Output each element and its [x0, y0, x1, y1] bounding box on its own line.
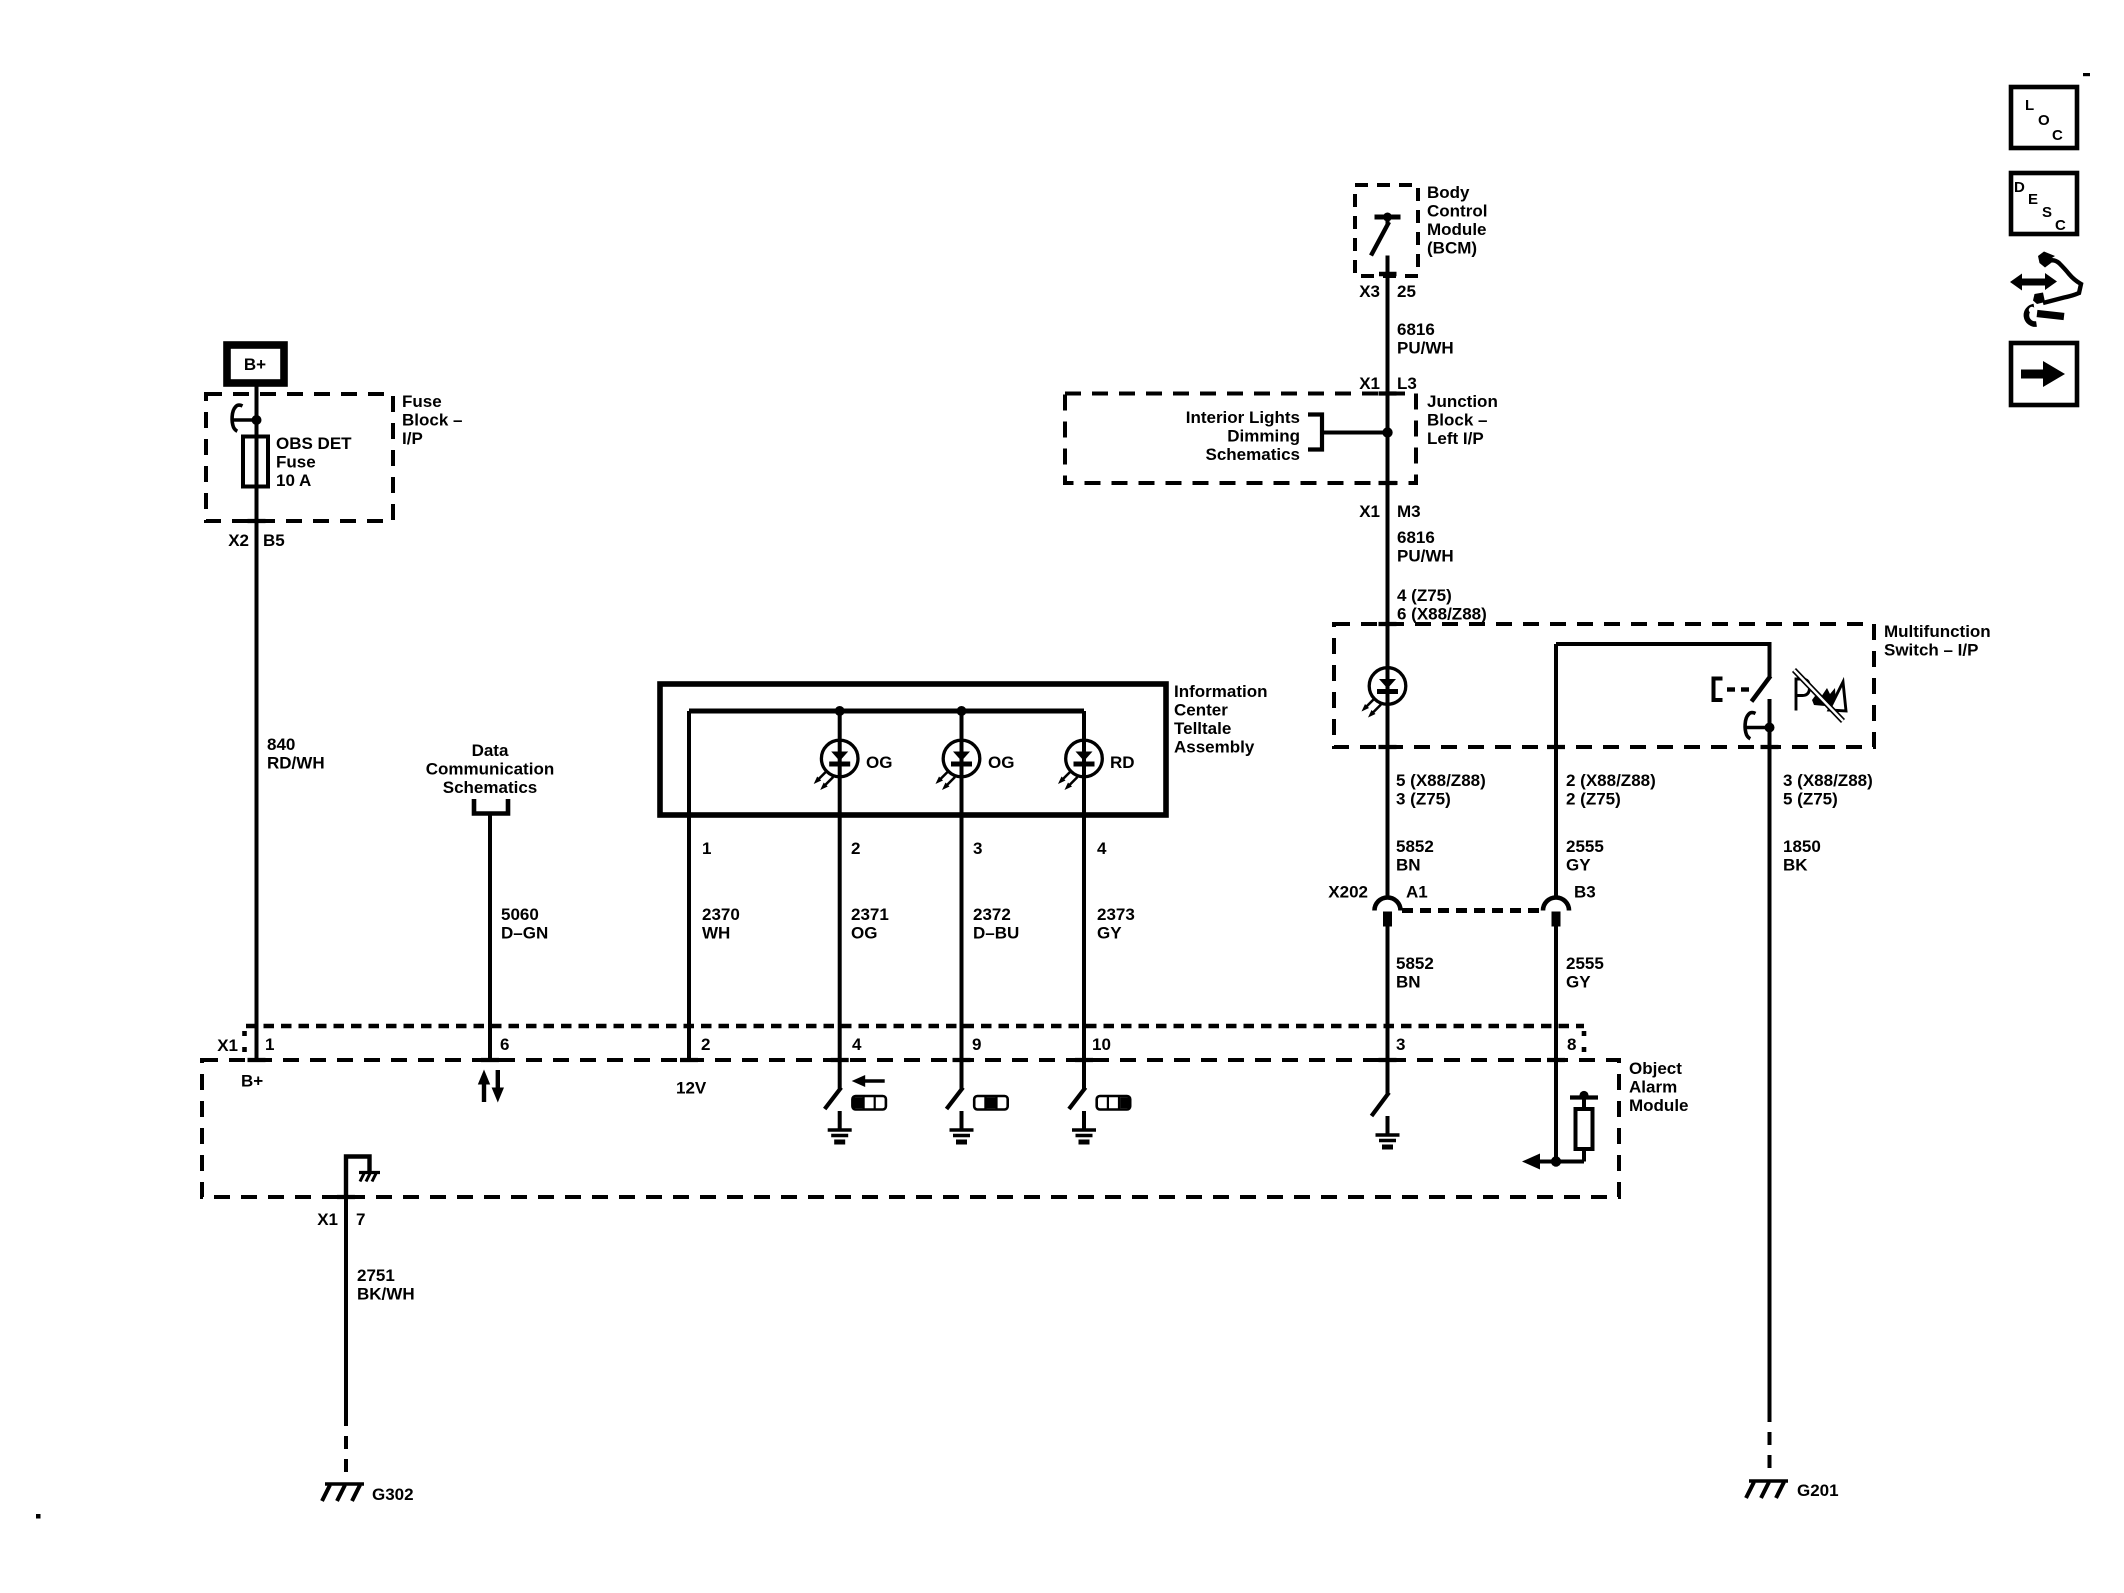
- svg-text:X1: X1: [1359, 374, 1380, 393]
- svg-text:Junction: Junction: [1427, 392, 1498, 411]
- wire label 2372 D-BU: [973, 905, 1019, 943]
- svg-text:I/P: I/P: [402, 429, 423, 448]
- svg-text:BN: BN: [1396, 973, 1421, 992]
- svg-text:(BCM): (BCM): [1427, 239, 1477, 258]
- ground G302: [322, 1484, 364, 1501]
- wire 5852 to module pin 3: [1386, 926, 1390, 1060]
- svg-text:B+: B+: [244, 355, 266, 374]
- svg-text:PU/WH: PU/WH: [1397, 547, 1454, 566]
- svg-text:G201: G201: [1797, 1481, 1839, 1500]
- svg-text:S: S: [2042, 204, 2052, 221]
- svg-text:2 (X88/Z88): 2 (X88/Z88): [1566, 771, 1656, 790]
- svg-text:GY: GY: [1566, 973, 1591, 992]
- svg-text:3: 3: [1396, 1035, 1405, 1054]
- fuse block label: [402, 392, 462, 448]
- svg-text:5852: 5852: [1396, 954, 1434, 973]
- svg-text:Schematics: Schematics: [443, 778, 538, 797]
- wire label 2751 BK/WH: [357, 1266, 415, 1304]
- internal supply bus: [689, 709, 1084, 714]
- svg-text:25: 25: [1397, 282, 1416, 301]
- tiny mark bottom left: [36, 1514, 41, 1519]
- data communication schematics label: [426, 741, 554, 797]
- svg-text:12V: 12V: [676, 1079, 707, 1098]
- wire label 2370 WH: [702, 905, 740, 943]
- wire label 2371 OG: [851, 905, 889, 943]
- svg-text:BK: BK: [1783, 856, 1808, 875]
- telltale LED 3 (RD) with wire to pin 10: [1082, 711, 1086, 1059]
- svg-text:9: 9: [972, 1035, 981, 1054]
- wire 840 from B+ through fuse to module pin 1: [255, 384, 259, 1059]
- fuse OBS DET 10A: [243, 437, 268, 487]
- svg-text:OG: OG: [851, 924, 877, 943]
- pin label 4 (Z75) 6 (X88/Z88): [1397, 586, 1487, 624]
- svg-text:Switch – I/P: Switch – I/P: [1884, 641, 1978, 660]
- svg-text:Center: Center: [1174, 701, 1228, 720]
- wire 6816 from BCM to junction block and on to MFS LED: [1386, 256, 1390, 898]
- svg-text:M3: M3: [1397, 502, 1421, 521]
- pins X2 B5: [228, 531, 285, 550]
- wire down to pin B3: [1554, 644, 1558, 898]
- svg-text:BN: BN: [1396, 856, 1421, 875]
- svg-text:2555: 2555: [1566, 954, 1604, 973]
- svg-text:2370: 2370: [702, 905, 740, 924]
- svg-text:X3: X3: [1359, 282, 1380, 301]
- svg-text:2371: 2371: [851, 905, 889, 924]
- wire from switch to G201: [1768, 699, 1772, 1409]
- svg-text:1850: 1850: [1783, 837, 1821, 856]
- node on bus at LED 1: [835, 706, 845, 716]
- forward arrow icon box: [2011, 343, 2077, 405]
- svg-text:Multifunction: Multifunction: [1884, 622, 1991, 641]
- svg-text:6816: 6816: [1397, 528, 1435, 547]
- BCM driver switch: [1371, 213, 1401, 256]
- fuse block dashed box: [206, 394, 393, 521]
- svg-text:4: 4: [852, 1035, 862, 1054]
- information center telltale assembly box: [660, 684, 1166, 815]
- pins X1 7: [317, 1210, 365, 1229]
- svg-text:5 (X88/Z88): 5 (X88/Z88): [1396, 771, 1486, 790]
- svg-text:Block –: Block –: [402, 411, 462, 430]
- wire label 2373 GY: [1097, 905, 1135, 943]
- svg-text:2372: 2372: [973, 905, 1011, 924]
- svg-text:6: 6: [500, 1035, 509, 1054]
- feed clip in fuse block: [232, 405, 261, 431]
- wire label 840 RD/WH: [267, 735, 325, 773]
- node in junction block: [1382, 427, 1392, 437]
- connector X202 dashed link: [1402, 908, 1541, 913]
- svg-text:5 (Z75): 5 (Z75): [1783, 790, 1838, 809]
- svg-text:X1: X1: [217, 1036, 238, 1055]
- svg-text:X1: X1: [1359, 502, 1380, 521]
- svg-text:4 (Z75): 4 (Z75): [1397, 586, 1452, 605]
- svg-text:WH: WH: [702, 924, 730, 943]
- interior lights dimming schematics reference: [1186, 408, 1300, 464]
- wire label 6816 PU/WH: [1397, 320, 1454, 358]
- pin label 2 (X88/Z88) 2 (Z75): [1566, 771, 1656, 809]
- node on bus at LED 2: [957, 706, 967, 716]
- svg-text:Alarm: Alarm: [1629, 1078, 1677, 1097]
- svg-text:2555: 2555: [1566, 837, 1604, 856]
- wire 2555 to module pin 8: [1554, 926, 1558, 1162]
- connector X1 dotted line: [246, 1024, 1584, 1029]
- svg-text:C: C: [2052, 127, 2063, 144]
- internal ground takeoff X1 7: [346, 1157, 370, 1198]
- svg-text:L3: L3: [1397, 374, 1417, 393]
- LOC icon box: [2011, 87, 2077, 148]
- svg-text:4: 4: [1097, 839, 1107, 858]
- wire label 5852 BN: [1396, 954, 1434, 992]
- module switch to ground (pin 9): [960, 1060, 964, 1089]
- svg-text:OG: OG: [866, 753, 892, 772]
- bracket to dimming schematics: [1308, 415, 1322, 450]
- telltale pin numbers: [702, 839, 1107, 858]
- svg-text:GY: GY: [1566, 856, 1591, 875]
- svg-text:840: 840: [267, 735, 295, 754]
- svg-text:Assembly: Assembly: [1174, 738, 1255, 757]
- pins X1 M3: [1359, 502, 1420, 521]
- pin tick at X3 25: [1379, 272, 1397, 276]
- svg-text:1: 1: [702, 839, 711, 858]
- svg-text:5060: 5060: [501, 905, 539, 924]
- body control module dashed box: [1355, 185, 1418, 276]
- module pull-up resistor (pin 8): [1522, 1091, 1598, 1170]
- svg-text:3 (X88/Z88): 3 (X88/Z88): [1783, 771, 1873, 790]
- wire 1850 dashed to G201: [1768, 1409, 1772, 1477]
- wire label 1850 BK: [1783, 837, 1821, 875]
- X1 right end drop: [1582, 1031, 1587, 1057]
- wire label 6816 PU/WH: [1397, 528, 1454, 566]
- svg-text:7: 7: [356, 1210, 365, 1229]
- svg-text:Schematics: Schematics: [1206, 445, 1301, 464]
- svg-text:Module: Module: [1629, 1096, 1689, 1115]
- telltale LED 2 (OG) with wire to pin 9: [960, 711, 964, 1059]
- svg-text:Data: Data: [472, 741, 509, 760]
- switch blade: [1752, 676, 1771, 702]
- svg-text:L: L: [2025, 97, 2034, 114]
- wire label 5060 D-GN: [501, 905, 548, 943]
- svg-text:6 (X88/Z88): 6 (X88/Z88): [1397, 605, 1487, 624]
- wire label 2555 GY: [1566, 954, 1604, 992]
- svg-text:A1: A1: [1406, 883, 1428, 902]
- module switch to ground (pin 4, door arrow): [838, 1060, 842, 1089]
- tiny page mark top right: [2083, 73, 2090, 76]
- svg-text:O: O: [2038, 112, 2050, 129]
- multifunction switch dashed box: [1334, 624, 1874, 747]
- svg-text:X202: X202: [1328, 883, 1368, 902]
- svg-text:D: D: [2014, 179, 2025, 196]
- svg-text:X1: X1: [317, 1210, 338, 1229]
- svg-text:C: C: [2055, 217, 2066, 234]
- svg-text:Left I/P: Left I/P: [1427, 429, 1484, 448]
- mechanical link E--: [1714, 679, 1750, 701]
- svg-text:Interior Lights: Interior Lights: [1186, 408, 1300, 427]
- svg-text:2: 2: [851, 839, 860, 858]
- svg-text:X2: X2: [228, 531, 249, 550]
- svg-text:Block –: Block –: [1427, 411, 1487, 430]
- svg-text:D–GN: D–GN: [501, 924, 548, 943]
- svg-text:G302: G302: [372, 1485, 414, 1504]
- svg-text:Body: Body: [1427, 183, 1470, 202]
- svg-text:Communication: Communication: [426, 760, 554, 779]
- svg-text:Fuse: Fuse: [402, 392, 442, 411]
- park assist disabled icon: [1794, 670, 1846, 721]
- svg-text:8: 8: [1567, 1035, 1576, 1054]
- svg-text:Module: Module: [1427, 220, 1487, 239]
- module switch to ground (pin 3): [1386, 1060, 1390, 1094]
- DESC icon box: [2011, 173, 2077, 234]
- telltale LED 1 (OG) with wire to pin 4: [838, 711, 842, 1059]
- svg-text:6816: 6816: [1397, 320, 1435, 339]
- pin label 5 (X88/Z88) 3 (Z75): [1396, 771, 1486, 809]
- svg-text:RD/WH: RD/WH: [267, 754, 325, 773]
- svg-text:2: 2: [701, 1035, 710, 1054]
- svg-text:Dimming: Dimming: [1227, 427, 1300, 446]
- svg-text:3: 3: [973, 839, 982, 858]
- svg-text:10 A: 10 A: [276, 471, 311, 490]
- svg-text:Control: Control: [1427, 202, 1487, 221]
- svg-text:OG: OG: [988, 753, 1014, 772]
- svg-text:BK/WH: BK/WH: [357, 1285, 415, 1304]
- serial data arrows: [478, 1070, 504, 1103]
- object alarm module dashed box: [202, 1060, 1619, 1197]
- svg-text:1: 1: [265, 1035, 274, 1054]
- svg-text:PU/WH: PU/WH: [1397, 339, 1454, 358]
- svg-text:5852: 5852: [1396, 837, 1434, 856]
- module pin numbers: [265, 1035, 1576, 1054]
- wire label 2555 GY: [1566, 837, 1604, 875]
- wire 5060: [488, 814, 492, 1060]
- wire label 5852 BN: [1396, 837, 1434, 875]
- svg-text:Object: Object: [1629, 1059, 1682, 1078]
- B+ power symbol: [227, 345, 284, 383]
- svg-text:2751: 2751: [357, 1266, 395, 1285]
- junction block dashed box: [1065, 394, 1416, 484]
- illumination LED in switch: [1362, 668, 1406, 718]
- ground G201: [1746, 1481, 1788, 1498]
- svg-text:D–BU: D–BU: [973, 924, 1019, 943]
- wire boundary ticks: [248, 394, 1779, 1198]
- connector X202 pin A1: [1375, 883, 1428, 927]
- svg-text:Telltale: Telltale: [1174, 719, 1231, 738]
- pins X3 25: [1359, 282, 1416, 301]
- svg-text:2373: 2373: [1097, 905, 1135, 924]
- switch output clip: [1745, 713, 1774, 739]
- wire pin1 to 12V pin 2: [687, 711, 691, 1059]
- svg-text:10: 10: [1092, 1035, 1111, 1054]
- pin label 3 (X88/Z88) 5 (Z75): [1783, 771, 1873, 809]
- svg-text:OBS DET: OBS DET: [276, 434, 352, 453]
- svg-text:3 (Z75): 3 (Z75): [1396, 790, 1451, 809]
- wire from bracket: [1322, 431, 1388, 435]
- svg-text:GY: GY: [1097, 924, 1122, 943]
- harness routing icon (double arrow, outline, wrench): [2010, 252, 2081, 325]
- svg-text:Fuse: Fuse: [276, 453, 316, 472]
- svg-text:E: E: [2028, 191, 2038, 208]
- svg-text:2 (Z75): 2 (Z75): [1566, 790, 1621, 809]
- svg-text:RD: RD: [1110, 753, 1135, 772]
- wire 2751 to G302: [344, 1197, 348, 1413]
- module switch to ground (pin 10): [1082, 1060, 1086, 1089]
- svg-text:B5: B5: [263, 531, 285, 550]
- switch feed wire across top: [1556, 644, 1770, 677]
- svg-text:Information: Information: [1174, 682, 1268, 701]
- svg-text:B3: B3: [1574, 883, 1596, 902]
- svg-text:B+: B+: [241, 1072, 263, 1091]
- wire LED to pin A1: [1386, 704, 1390, 898]
- X1 left end drop: [242, 1031, 247, 1057]
- off-page bracket: [474, 799, 508, 814]
- connector X202 pin B3: [1543, 883, 1596, 927]
- pins X1 L3: [1359, 374, 1417, 393]
